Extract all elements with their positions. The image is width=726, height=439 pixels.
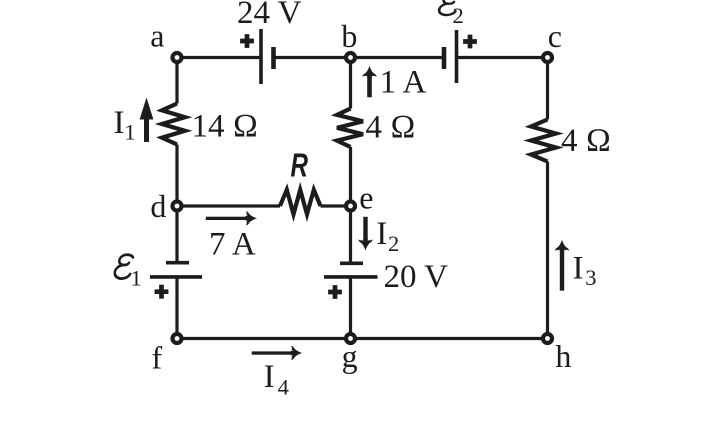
wire e down to 20V battery bbox=[349, 206, 352, 263]
node d bbox=[173, 202, 182, 211]
svg-text:c: c bbox=[548, 18, 562, 54]
wire c down to right 4-ohm resistor bbox=[546, 58, 549, 120]
wire 14-ohm resistor to d bbox=[175, 145, 178, 207]
svg-text:1: 1 bbox=[131, 266, 142, 291]
resistor 4 ohm right bbox=[531, 120, 556, 162]
svg-text:7 A: 7 A bbox=[209, 227, 256, 263]
battery 24 V plus sign bbox=[240, 34, 254, 48]
battery E2 short negative plate bbox=[442, 47, 447, 69]
svg-text:I: I bbox=[376, 216, 387, 252]
svg-text:I: I bbox=[114, 105, 125, 141]
svg-text:d: d bbox=[150, 188, 166, 224]
wire a to 24V battery bbox=[177, 56, 261, 59]
svg-text:e: e bbox=[359, 179, 373, 215]
wire b down to 4-ohm resistor bbox=[349, 58, 352, 109]
current arrow 1 A (up) bbox=[367, 72, 372, 97]
node a bbox=[173, 53, 182, 62]
resistor R bbox=[280, 190, 321, 215]
node c bbox=[543, 53, 552, 62]
current arrow I3 (up) bbox=[560, 247, 564, 291]
svg-text:a: a bbox=[150, 18, 164, 54]
node f bbox=[173, 334, 182, 343]
battery E2 long positive plate bbox=[455, 30, 459, 83]
svg-text:4 Ω: 4 Ω bbox=[561, 123, 611, 159]
svg-text:3: 3 bbox=[585, 265, 596, 290]
svg-text:24 V: 24 V bbox=[237, 0, 302, 31]
svg-text:4 Ω: 4 Ω bbox=[366, 109, 416, 145]
svg-text:I: I bbox=[264, 359, 275, 395]
svg-text:14 Ω: 14 Ω bbox=[192, 109, 259, 145]
battery E1 label script-E 1 bbox=[114, 255, 133, 279]
battery 20 V plus sign bbox=[328, 285, 342, 299]
wire resistor R to e bbox=[321, 204, 351, 207]
current arrow 7 A (right) bbox=[206, 217, 249, 220]
battery 20 V long positive plate bbox=[324, 275, 378, 279]
wire f to g bbox=[177, 337, 351, 340]
svg-text:1 A: 1 A bbox=[380, 64, 427, 100]
svg-text:I: I bbox=[573, 251, 584, 287]
svg-text:g: g bbox=[342, 338, 358, 374]
resistor 4 ohm middle bbox=[337, 109, 363, 148]
wire g to h bbox=[351, 337, 548, 340]
svg-text:2: 2 bbox=[388, 231, 399, 256]
wire E1 battery to f bbox=[175, 277, 178, 339]
node g bbox=[346, 334, 355, 343]
battery E1 short negative plate bbox=[166, 261, 189, 265]
svg-text:2: 2 bbox=[453, 3, 464, 28]
wire a down to 14-ohm resistor bbox=[175, 58, 178, 104]
current arrow I2 (down) bbox=[363, 217, 367, 241]
node h bbox=[543, 334, 552, 343]
battery 24 V long positive plate bbox=[259, 29, 263, 84]
node e bbox=[346, 202, 355, 211]
resistor 14 ohm bbox=[162, 104, 185, 145]
wire d to resistor R bbox=[177, 204, 280, 207]
svg-text:f: f bbox=[152, 340, 163, 376]
battery 24 V short negative plate bbox=[271, 47, 276, 69]
battery E1 long positive plate bbox=[150, 275, 202, 279]
svg-text:1: 1 bbox=[124, 120, 135, 145]
wire 20V battery to g bbox=[349, 277, 352, 339]
wire right 4-ohm resistor to h bbox=[546, 162, 549, 339]
svg-text:R: R bbox=[291, 147, 309, 184]
svg-text:b: b bbox=[341, 18, 357, 54]
node b bbox=[346, 53, 355, 62]
wire 24V battery to b bbox=[275, 56, 351, 59]
battery E1 plus sign bbox=[155, 285, 169, 299]
wire 4-ohm resistor to e bbox=[349, 147, 352, 206]
battery E2 plus sign bbox=[463, 35, 477, 49]
wire d down to E1 battery bbox=[175, 206, 178, 263]
battery 20 V short negative plate bbox=[340, 261, 363, 265]
svg-text:4: 4 bbox=[278, 375, 289, 400]
wire b to E2 battery bbox=[351, 56, 445, 59]
svg-text:20 V: 20 V bbox=[384, 259, 449, 295]
svg-text:h: h bbox=[555, 338, 571, 374]
wire E2 battery to c bbox=[457, 56, 548, 59]
battery E2 label script-E 2 bbox=[439, 0, 459, 15]
current arrow I1 (up, thick) bbox=[140, 98, 154, 143]
current arrow I4 (right) bbox=[252, 351, 295, 354]
